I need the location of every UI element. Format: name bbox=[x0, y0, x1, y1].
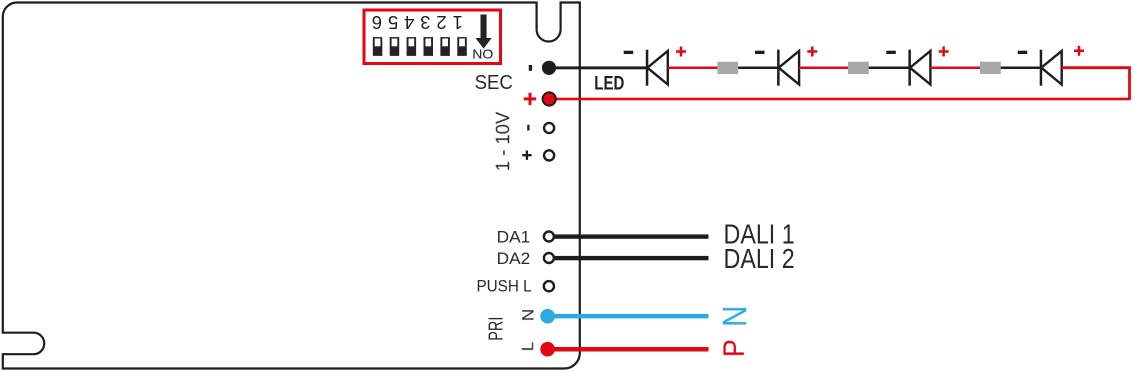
svg-text:N: N bbox=[717, 306, 755, 327]
terminal DA1 bbox=[544, 232, 554, 242]
wire connector 3 to D4 (black) bbox=[1001, 67, 1040, 70]
DIP switch S6 body bbox=[373, 37, 383, 56]
LED D1 triangle bbox=[647, 51, 667, 85]
D3 plus label (red) bbox=[939, 47, 949, 57]
driver enclosure outline with top U-notch and left mounting slot bbox=[3, 3, 580, 369]
LED D3 cathode bar bbox=[908, 50, 911, 86]
wire D4 anode return (red, right and down) bbox=[1062, 68, 1130, 99]
DIP ON arrow (pointing down, rotated graphic) bbox=[476, 15, 492, 49]
terminal 1-10V minus bbox=[544, 123, 554, 133]
DIP switch S1 body bbox=[457, 37, 467, 56]
svg-text:PRI: PRI bbox=[486, 317, 508, 341]
DIP switch S2 body bbox=[440, 37, 450, 56]
wire D1 anode to connector 1 (red) bbox=[668, 67, 718, 70]
connector 1 bbox=[717, 62, 738, 74]
DIP switch S5 body bbox=[390, 37, 400, 56]
terminal L dot bbox=[540, 342, 555, 357]
wire DA1 to DALI 1 bbox=[551, 234, 709, 238]
DIP switch S4 body bbox=[407, 37, 417, 56]
wire D2 anode to connector 2 (red) bbox=[799, 67, 848, 70]
svg-text:LED: LED bbox=[594, 74, 624, 95]
terminal DA2 bbox=[544, 253, 554, 263]
wire SEC- to LED string bbox=[549, 66, 648, 69]
wire connector 2 to D3 (black) bbox=[869, 67, 910, 70]
LED D2 cathode bar bbox=[777, 50, 780, 86]
connector 2 bbox=[848, 62, 869, 74]
svg-text:P: P bbox=[718, 339, 751, 357]
LED D1 cathode bar bbox=[646, 50, 649, 86]
svg-text:DALI 2: DALI 2 bbox=[724, 243, 795, 274]
terminal PUSH L bbox=[544, 281, 554, 291]
wire D3 anode to connector 3 (red) bbox=[930, 67, 980, 70]
svg-text:SEC: SEC bbox=[475, 71, 513, 94]
D4 plus label (red) bbox=[1074, 46, 1084, 56]
terminal SEC- dot bbox=[542, 61, 556, 75]
svg-text:6: 6 bbox=[372, 12, 382, 33]
DIP switch digits 1-6 (rotated 180) bbox=[372, 12, 463, 33]
1-10V plus mark (rotated) bbox=[522, 151, 531, 160]
terminal 1-10V plus bbox=[544, 150, 554, 160]
LED D4 cathode bar bbox=[1040, 50, 1043, 86]
wire connector 1 to D2 (black) bbox=[738, 67, 778, 70]
1-10V minus mark (rotated) bbox=[527, 125, 529, 131]
SEC minus polarity mark (rotated) bbox=[529, 65, 532, 71]
svg-text:4: 4 bbox=[404, 12, 414, 33]
D2 minus label bbox=[755, 51, 765, 54]
SEC plus polarity mark bbox=[524, 93, 536, 105]
svg-text:DA2: DA2 bbox=[497, 249, 531, 268]
svg-text:3: 3 bbox=[420, 12, 430, 33]
wire L (red) bbox=[551, 347, 709, 352]
wire SEC+ (red, to LED string return) bbox=[549, 98, 1130, 101]
terminal N dot bbox=[540, 309, 555, 324]
LED D3 triangle bbox=[910, 51, 930, 85]
LED D4 triangle bbox=[1041, 51, 1061, 85]
wire DA2 to DALI 2 bbox=[551, 256, 709, 260]
terminal SEC+ dot bbox=[543, 92, 556, 105]
wire N (blue) bbox=[551, 314, 709, 319]
D1 minus label bbox=[624, 51, 634, 54]
D4 minus label bbox=[1018, 51, 1027, 54]
D1 plus label (red) bbox=[676, 47, 686, 57]
svg-text:1: 1 bbox=[453, 12, 463, 33]
D2 plus label (red) bbox=[807, 47, 817, 57]
D3 minus label bbox=[886, 51, 896, 54]
svg-text:ON: ON bbox=[472, 46, 493, 61]
connector 3 bbox=[980, 62, 1001, 74]
DIP switch S3 body bbox=[424, 37, 434, 56]
DIP switch red frame bbox=[364, 10, 501, 64]
svg-text:DA1: DA1 bbox=[497, 227, 531, 246]
LED D2 triangle bbox=[779, 51, 799, 85]
svg-text:N: N bbox=[519, 309, 538, 321]
svg-text:2: 2 bbox=[436, 12, 446, 33]
svg-text:L: L bbox=[518, 342, 537, 351]
svg-text:1 - 10V: 1 - 10V bbox=[492, 112, 514, 171]
svg-text:PUSH L: PUSH L bbox=[477, 276, 532, 295]
svg-text:5: 5 bbox=[388, 12, 398, 33]
